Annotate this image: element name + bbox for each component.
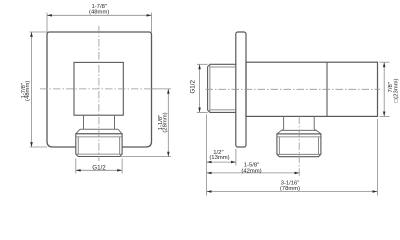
- front vertical centerline: [98, 26, 100, 161]
- svg-text:□(23mm): □(23mm): [394, 78, 400, 102]
- dimension G1/2 side inlet: [197, 63, 208, 65]
- side view outlet neck: [283, 116, 285, 129]
- dimension G1/2 front outlet: [75, 159, 77, 174]
- front view outlet flange: [80, 128, 118, 130]
- dimension 1-5/8 42mm to outlet center: [207, 172, 300, 174]
- dimension 7/8 23mm right cap: [380, 61, 390, 63]
- dimension 1-7/8 48mm top: [46, 13, 48, 32]
- side view main body: [246, 62, 378, 116]
- svg-text:(78mm): (78mm): [280, 186, 300, 192]
- side view threaded outlet: [277, 134, 321, 157]
- svg-text:(13mm): (13mm): [209, 155, 229, 161]
- side outlet vertical centerline: [298, 116, 300, 176]
- svg-text:(28mm): (28mm): [163, 112, 169, 132]
- svg-text:(48mm): (48mm): [89, 10, 109, 16]
- side view threaded inlet pipe: [208, 64, 236, 112]
- svg-text:G1/2: G1/2: [92, 164, 106, 171]
- dimension 3-1/16 78mm overall: [376, 119, 378, 196]
- front view threaded outlet G1/2: [76, 134, 122, 157]
- svg-text:(48mm): (48mm): [25, 81, 31, 101]
- front view valve body square: [74, 62, 123, 115]
- front horizontal centerline: [40, 88, 156, 90]
- svg-text:G1/2: G1/2: [190, 80, 197, 94]
- side view body / end-cap joint: [326, 62, 328, 116]
- dimension 1-7/8 48mm left: [30, 31, 48, 33]
- dimension 1/2 13mm inlet length: [206, 115, 208, 196]
- svg-text:(42mm): (42mm): [241, 168, 261, 174]
- side horizontal centerline: [206, 88, 381, 90]
- side view wall plate: [236, 32, 246, 147]
- dimension 1-1/8 28mm right: [152, 88, 172, 90]
- front view outlet neck: [83, 115, 85, 129]
- side view outlet flange: [281, 129, 316, 131]
- front view wall plate: [47, 32, 152, 147]
